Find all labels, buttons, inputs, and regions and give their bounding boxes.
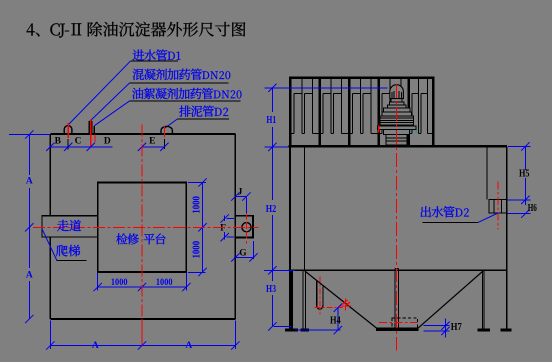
svg-text:A: A xyxy=(92,341,99,351)
right inner leg xyxy=(481,270,483,329)
plan horizontal centerline xyxy=(33,226,259,228)
svg-text:C: C xyxy=(75,137,82,147)
inlet pipe plan symbol xyxy=(64,126,72,135)
dim H5 H6 line xyxy=(524,146,526,170)
text 检修 xyxy=(116,233,138,244)
leader to flocculant pipe xyxy=(94,101,130,126)
text 平台 xyxy=(144,233,166,244)
ext ground level left xyxy=(274,325,292,327)
svg-text:H2: H2 xyxy=(266,204,277,215)
tank right wall xyxy=(506,146,508,328)
tank bottom line xyxy=(288,269,506,271)
dim H1 H2 H3 line xyxy=(271,88,273,112)
svg-text:B: B xyxy=(55,137,62,147)
dim A left line xyxy=(28,135,30,176)
right front leg foot xyxy=(501,329,511,331)
text 走道 xyxy=(57,220,81,231)
walkway 走道 box xyxy=(42,216,98,237)
dim line E xyxy=(142,146,164,148)
ext H7 bottom xyxy=(424,330,450,332)
svg-text:1000: 1000 xyxy=(192,196,203,214)
svg-text:A: A xyxy=(185,341,192,351)
cone bottom flange xyxy=(376,328,418,330)
tube settler dividers xyxy=(318,78,321,147)
plan tank outline xyxy=(50,133,235,135)
ext tank bottom left xyxy=(264,269,295,271)
svg-text:H6: H6 xyxy=(528,203,537,214)
svg-text:1000: 1000 xyxy=(192,241,203,259)
svg-text:H3: H3 xyxy=(266,284,276,295)
drain pipe in cone xyxy=(316,281,318,306)
svg-text:H1: H1 xyxy=(266,115,276,126)
label oil flocculant dosing pipe 油絮凝剂加药管DN20 xyxy=(132,88,213,100)
extension A top xyxy=(9,134,50,136)
svg-text:H4: H4 xyxy=(330,314,341,326)
label sludge pipe 排泥管D2 xyxy=(179,106,214,117)
plan vertical centerline xyxy=(141,125,143,320)
dim 1000 vertical line xyxy=(202,183,204,273)
ext H1 top (dome top level) xyxy=(265,87,388,89)
svg-text:E: E xyxy=(149,137,155,147)
title text xyxy=(27,23,40,36)
ext H7 top xyxy=(424,325,450,327)
svg-text:H7: H7 xyxy=(451,322,462,333)
left inner leg xyxy=(302,270,304,329)
dim line B C D xyxy=(50,146,112,148)
extension bottom-right xyxy=(234,321,236,350)
dosing pipes plan symbol xyxy=(88,121,90,135)
elevation vertical centerline xyxy=(396,84,398,351)
red tick left of mixer base xyxy=(378,126,380,133)
drain pipe red centerline xyxy=(319,277,321,315)
ext platform top-right xyxy=(188,182,206,184)
ext outlet top xyxy=(508,199,531,201)
svg-text:H5: H5 xyxy=(519,168,530,179)
ext G right xyxy=(253,241,255,259)
mixer drive assembly xyxy=(386,135,407,146)
ext platform bottom-right corner xyxy=(185,273,187,291)
svg-text:G: G xyxy=(239,249,247,259)
dim H4 xyxy=(337,308,339,330)
plan outlet box xyxy=(235,216,253,238)
hidden drain elbow xyxy=(392,318,418,329)
dim A A bottom line xyxy=(50,345,235,347)
red extension pipe bottom xyxy=(315,307,343,309)
plan outlet circle xyxy=(242,223,251,232)
ext platform bottom-left corner xyxy=(97,273,99,291)
ext outlet bottom xyxy=(508,213,531,215)
tank left wall xyxy=(289,146,291,270)
leader to inlet pipe xyxy=(69,61,131,124)
ext platform bottom-right xyxy=(188,271,206,273)
dim 1000 horizontal line xyxy=(98,286,187,288)
dim F line xyxy=(224,216,226,222)
ext ground left xyxy=(295,329,341,331)
dim G line xyxy=(234,256,254,258)
ext F top xyxy=(227,218,235,220)
svg-text:A: A xyxy=(26,177,33,187)
red mark on cone slope xyxy=(344,299,346,313)
ext tank top left xyxy=(265,146,289,148)
svg-text:F: F xyxy=(220,224,226,234)
sludge pipe plan symbol xyxy=(161,126,172,134)
tube settler cells xyxy=(293,94,295,134)
left front leg xyxy=(289,270,292,329)
dim H7 xyxy=(445,319,447,338)
maintenance platform box xyxy=(98,183,187,273)
svg-text:D: D xyxy=(104,137,111,147)
tank left inner wall xyxy=(303,146,305,270)
text 爬梯 xyxy=(56,245,80,257)
cone left slope xyxy=(305,271,377,328)
extension bottom-left xyxy=(49,321,51,350)
outlet red centerline xyxy=(497,182,499,230)
leader to coagulant pipe xyxy=(91,83,130,121)
cyan marks near mixer xyxy=(410,131,412,133)
label inlet pipe 进水管D1 xyxy=(133,49,168,60)
red centerline at elbow xyxy=(379,321,418,323)
label coagulant dosing pipe 混凝剂加药管DN20 xyxy=(133,69,202,80)
ext tank top right xyxy=(508,145,531,147)
ext J from circle xyxy=(245,198,247,214)
svg-text:A: A xyxy=(26,270,33,280)
dim J line xyxy=(235,196,246,198)
tank top line xyxy=(288,145,507,147)
elevation outlet box xyxy=(489,200,506,213)
svg-text:1000: 1000 xyxy=(111,277,128,287)
ext F bottom xyxy=(227,236,235,238)
outlet chamber wall xyxy=(486,146,488,199)
ladder 爬梯 leader xyxy=(42,229,57,260)
leader to sludge pipe xyxy=(165,119,178,128)
plan outlet red vertical centerline xyxy=(246,213,248,244)
label outlet pipe 出水管D2 xyxy=(421,206,455,217)
mixer shaft xyxy=(394,268,396,328)
tube settler box outline xyxy=(290,78,433,147)
svg-text:J: J xyxy=(238,188,243,198)
svg-text:1000: 1000 xyxy=(156,277,173,287)
cone right slope xyxy=(418,271,483,328)
